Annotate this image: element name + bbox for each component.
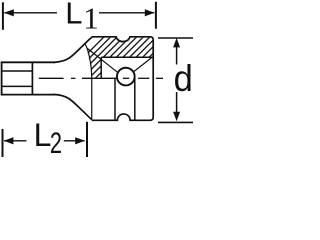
recess left chamfer diagonal: [87, 48, 117, 72]
dimension L1: line segments: [4, 12, 57, 14]
square drive recess top line: [101, 56, 152, 58]
socket body outline with top notch, bottom ball bump: [92, 37, 154, 121]
svg-text:L: L: [34, 117, 52, 153]
dimension L2: right extension tick: [86, 122, 88, 157]
svg-text:1: 1: [83, 0, 99, 35]
recess end wall: [100, 57, 102, 78]
dimension L1: left arrowhead: [4, 9, 14, 16]
flare neck upper curve: [54, 37, 93, 63]
dimension L2: line segments: [4, 140, 27, 142]
dimension L2: right arrowhead: [75, 137, 85, 144]
flare neck lower curve: [54, 94, 92, 119]
detent ball: [117, 68, 135, 86]
dimension d: upper arrow: [176, 44, 178, 65]
svg-text:d: d: [174, 57, 193, 100]
dimension L1: right extension tick: [155, 2, 157, 29]
hex bit outline: [1, 62, 55, 94]
dimension d: bottom extension line: [158, 121, 193, 123]
svg-text:L: L: [65, 0, 82, 31]
dimension L2: left arrowhead: [4, 137, 14, 144]
hex flat lines: [1, 62, 32, 96]
dimension d: top extension line: [158, 37, 193, 39]
body front face edge: [85, 44, 92, 120]
svg-text:2: 2: [50, 128, 62, 157]
label d: [174, 57, 193, 100]
hatching of sectioned socket body: [59, 30, 176, 82]
dimension L1: left extension tick: [2, 2, 4, 30]
dimension d: lower arrow: [176, 92, 178, 116]
hex end edge: [31, 62, 33, 96]
cross-hole walls below ball: [114, 78, 116, 120]
centerline dash-dot: [39, 77, 163, 79]
dimension L2: left extension tick: [2, 129, 4, 157]
recess right chamfer diagonal: [133, 57, 152, 72]
dimension L1: right arrowhead: [145, 9, 155, 16]
